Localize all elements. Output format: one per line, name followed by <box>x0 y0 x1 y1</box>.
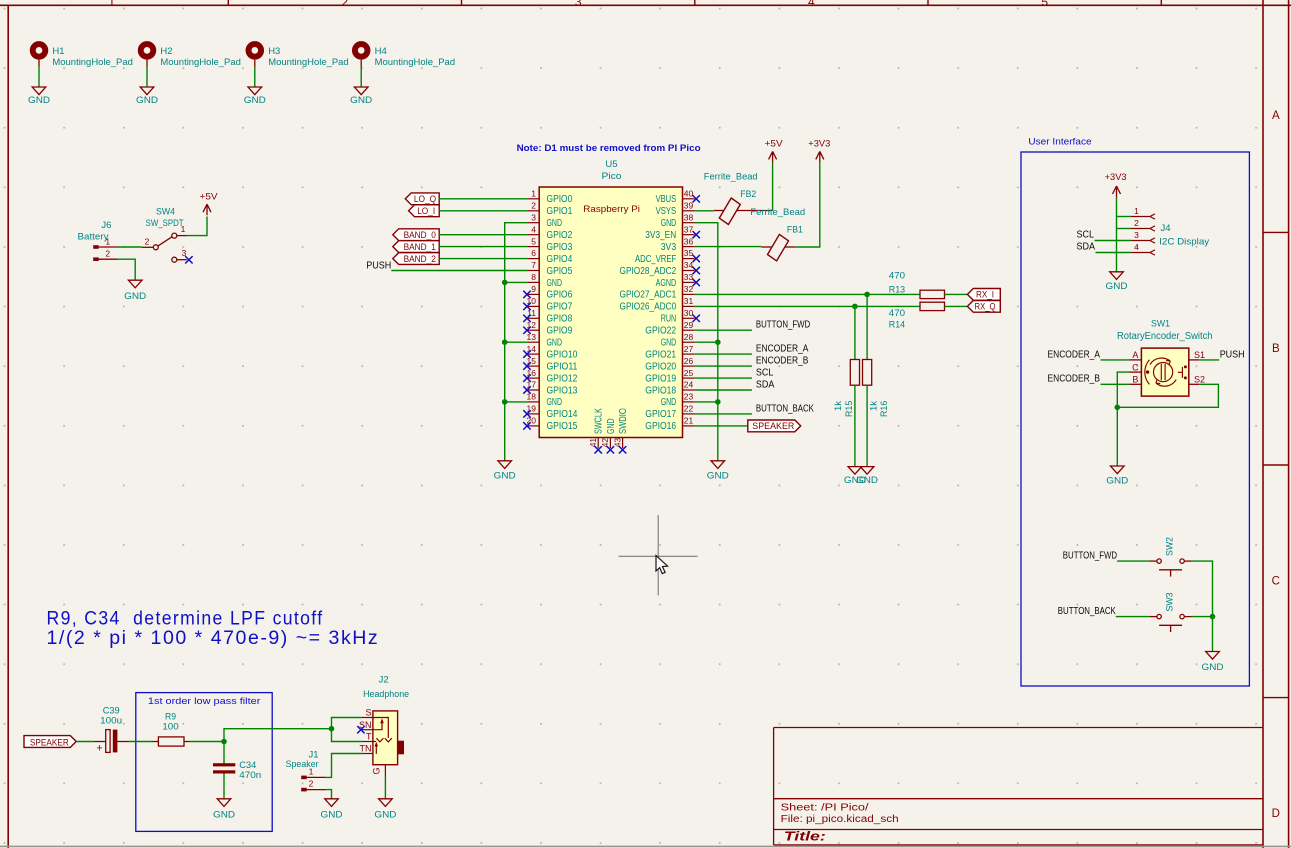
user interface sheet box <box>1021 152 1249 686</box>
wire FB1 to +3V3 <box>795 162 820 247</box>
svg-text:GPIO22: GPIO22 <box>645 326 676 337</box>
svg-text:GPIO8: GPIO8 <box>547 314 573 325</box>
wire PUSH to GPIO5 <box>391 270 528 272</box>
svg-text:LO_Q: LO_Q <box>414 194 436 205</box>
junction <box>715 339 721 345</box>
svg-text:RUN: RUN <box>661 314 677 325</box>
svg-text:+5V: +5V <box>200 192 219 203</box>
no-connect SN <box>357 726 364 733</box>
svg-text:2: 2 <box>145 237 150 247</box>
wire SPEAKER <box>695 425 748 427</box>
mounting hole H2 <box>141 44 154 57</box>
svg-text:470: 470 <box>889 270 905 281</box>
svg-text:42: 42 <box>600 438 610 448</box>
wire J6.2 to GND <box>118 259 136 280</box>
pin 25 GPIO19 <box>683 377 695 379</box>
wire <box>439 210 528 212</box>
pin 23 GND <box>683 401 695 403</box>
svg-text:GPIO9: GPIO9 <box>547 326 573 337</box>
ground <box>860 467 874 475</box>
ground <box>1111 466 1125 474</box>
svg-text:5: 5 <box>531 236 536 246</box>
svg-text:Raspberry Pi: Raspberry Pi <box>583 204 640 215</box>
svg-text:J2: J2 <box>379 675 389 686</box>
wire <box>1117 228 1131 230</box>
no-connect pin 43 <box>619 446 626 453</box>
svg-text:SCL: SCL <box>756 367 774 378</box>
svg-text:BAND_1: BAND_1 <box>404 242 436 253</box>
svg-text:FB1: FB1 <box>787 225 803 236</box>
mounting hole H1 <box>33 44 46 57</box>
svg-text:G: G <box>372 767 382 774</box>
wire SW3 to GND bus <box>1192 616 1213 618</box>
svg-text:39: 39 <box>684 200 694 210</box>
svg-text:1: 1 <box>531 189 536 199</box>
svg-text:GPIO20: GPIO20 <box>645 361 676 372</box>
wire <box>439 234 528 236</box>
svg-text:41: 41 <box>588 438 598 448</box>
svg-text:2: 2 <box>105 249 110 259</box>
svg-text:8: 8 <box>531 272 536 282</box>
svg-text:3V3_EN: 3V3_EN <box>645 230 676 241</box>
hierarchical label BAND_2 <box>393 253 439 265</box>
no-connect pin 20 <box>523 422 530 429</box>
svg-text:R13: R13 <box>889 284 905 295</box>
wire <box>1117 560 1150 562</box>
pin 41 SWCLK <box>597 438 599 449</box>
wire <box>38 67 40 88</box>
svg-text:ADC_VREF: ADC_VREF <box>635 254 676 265</box>
wire BUTTON_BACK <box>695 413 752 415</box>
hierarchical label RX_Q <box>967 301 1000 313</box>
svg-text:SW1: SW1 <box>1151 318 1170 329</box>
svg-text:D: D <box>1272 808 1280 820</box>
svg-text:1k: 1k <box>868 401 879 411</box>
pin 43 SWDIO <box>622 438 624 449</box>
title block <box>774 727 1263 729</box>
svg-text:PUSH: PUSH <box>1220 349 1245 360</box>
svg-text:GPIO4: GPIO4 <box>547 254 573 265</box>
wire J1.1 to TN <box>326 754 362 778</box>
wire <box>944 305 967 307</box>
pin 37 3V3_EN <box>683 234 695 236</box>
no-connect pin 35 <box>693 255 700 262</box>
wire <box>129 741 153 743</box>
svg-text:GND: GND <box>547 278 563 289</box>
svg-text:GPIO2: GPIO2 <box>547 230 573 241</box>
wire SCL <box>695 377 752 379</box>
pin 11 GPIO8 <box>528 317 539 319</box>
svg-text:C: C <box>1272 575 1280 587</box>
no-connect pin 41 <box>595 446 602 453</box>
pin 14 GPIO10 <box>528 353 539 355</box>
wire GND bus left <box>505 223 528 461</box>
no-connect pin 40 <box>693 195 700 202</box>
no-connect pin 17 <box>523 386 530 393</box>
pin 35 ADC_VREF <box>683 258 695 260</box>
svg-text:ENCODER_B: ENCODER_B <box>1048 374 1101 385</box>
svg-text:User Interface: User Interface <box>1028 136 1091 147</box>
wire node down to C34 <box>223 742 225 765</box>
svg-text:H4: H4 <box>375 46 387 57</box>
hierarchical label BAND_0 <box>393 229 439 241</box>
pin 20 GPIO15 <box>528 425 539 427</box>
svg-text:H2: H2 <box>160 46 172 57</box>
hierarchical label BAND_1 <box>393 241 439 253</box>
svg-text:Note: D1 must be removed from: Note: D1 must be removed from PI Pico <box>517 143 701 153</box>
svg-text:RX_Q: RX_Q <box>975 302 996 313</box>
svg-text:GPIO19: GPIO19 <box>645 373 676 384</box>
pin 21 GPIO16 <box>683 425 695 427</box>
graphic box 1st order low pass filter <box>136 693 272 832</box>
svg-text:Battery: Battery <box>78 231 109 242</box>
mounting hole H3 <box>249 44 262 57</box>
svg-text:File: pi_pico.kicad_sch: File: pi_pico.kicad_sch <box>781 814 899 825</box>
svg-text:GND: GND <box>606 419 617 435</box>
svg-text:30: 30 <box>684 308 694 318</box>
no-connect pin 10 <box>523 303 530 310</box>
svg-text:18: 18 <box>527 392 537 402</box>
wire R15 top <box>854 306 856 359</box>
svg-text:S2: S2 <box>1194 375 1205 385</box>
svg-text:GPIO5: GPIO5 <box>547 266 573 277</box>
no-connect pin 34 <box>693 267 700 274</box>
svg-text:23: 23 <box>684 392 694 402</box>
wire <box>695 341 718 343</box>
wire <box>146 67 148 88</box>
svg-text:470n: 470n <box>239 770 261 781</box>
ground <box>248 87 262 95</box>
svg-text:GPIO0: GPIO0 <box>547 194 573 205</box>
svg-text:GND: GND <box>374 810 396 821</box>
svg-text:Ferrite_Bead: Ferrite_Bead <box>704 171 758 182</box>
ground <box>1110 272 1124 280</box>
svg-text:AGND: AGND <box>656 278 677 289</box>
svg-text:VSYS: VSYS <box>656 206 677 217</box>
wire R9 to node <box>190 741 225 743</box>
svg-text:Sheet: /PI Pico/: Sheet: /PI Pico/ <box>781 802 869 813</box>
svg-text:U5: U5 <box>605 159 617 170</box>
hierarchical label LO_I <box>409 205 440 217</box>
pin 39 VSYS <box>683 210 695 212</box>
svg-text:H1: H1 <box>52 46 64 57</box>
ground <box>217 799 231 807</box>
svg-text:R14: R14 <box>889 320 905 331</box>
ferrite bead FB1 <box>768 234 789 261</box>
no-connect pin 42 <box>607 446 614 453</box>
power +5V <box>769 151 777 162</box>
wire ENCODER_B <box>695 365 752 367</box>
svg-text:GND: GND <box>661 338 677 349</box>
IC U5 Pico (Raspberry Pi) body <box>539 187 682 438</box>
svg-text:GND: GND <box>28 95 50 106</box>
svg-text:1k: 1k <box>833 401 844 411</box>
svg-text:2: 2 <box>342 0 349 9</box>
wire VSYS to FB2 <box>695 210 714 212</box>
pin 30 RUN <box>683 317 695 319</box>
pin 7 GPIO5 <box>528 270 539 272</box>
wire SW2 to GND bus <box>1192 561 1213 651</box>
svg-text:470: 470 <box>889 308 905 319</box>
wire S1 to PUSH <box>1199 359 1219 361</box>
svg-text:RotaryEncoder_Switch: RotaryEncoder_Switch <box>1117 331 1213 342</box>
svg-text:R15: R15 <box>844 401 855 417</box>
svg-text:Headphone: Headphone <box>363 689 409 700</box>
svg-text:GND: GND <box>244 95 266 106</box>
wire BUTTON_FWD <box>695 329 752 331</box>
junction <box>1115 405 1121 411</box>
svg-text:GPIO27_ADC1: GPIO27_ADC1 <box>620 290 677 301</box>
svg-text:H3: H3 <box>268 46 280 57</box>
pin 17 GPIO13 <box>528 389 539 391</box>
switch SW2 <box>1157 559 1161 563</box>
svg-text:2: 2 <box>1134 218 1139 228</box>
svg-text:24: 24 <box>684 380 694 390</box>
svg-text:3: 3 <box>531 212 536 222</box>
capacitor C39 100u <box>93 741 106 743</box>
svg-text:A: A <box>1132 350 1138 360</box>
svg-text:VBUS: VBUS <box>656 194 677 205</box>
junction <box>502 280 508 286</box>
svg-text:J6: J6 <box>101 220 111 231</box>
svg-text:GPIO12: GPIO12 <box>547 373 578 384</box>
wire SDA <box>695 389 752 391</box>
no-connect pin 33 <box>693 279 700 286</box>
svg-text:GPIO1: GPIO1 <box>547 206 573 217</box>
pin 22 GPIO17 <box>683 413 695 415</box>
svg-text:GND: GND <box>661 397 677 408</box>
svg-text:22: 22 <box>684 404 694 414</box>
power +5V <box>203 204 211 215</box>
svg-text:4: 4 <box>808 0 815 9</box>
svg-text:21: 21 <box>684 416 694 426</box>
junction <box>1210 614 1216 620</box>
wire to S <box>332 718 362 729</box>
svg-text:36: 36 <box>684 236 694 246</box>
svg-text:1: 1 <box>108 0 115 9</box>
wire +3V3 to J4.1 and GND bus <box>1116 197 1118 272</box>
pin 9 GPIO6 <box>528 293 539 295</box>
svg-text:3: 3 <box>575 0 582 9</box>
resistor R15 1k <box>850 360 859 386</box>
svg-text:MountingHole_Pad: MountingHole_Pad <box>268 57 349 68</box>
svg-text:GND: GND <box>1106 281 1128 292</box>
svg-text:GND: GND <box>1202 662 1224 673</box>
svg-text:33: 33 <box>684 272 694 282</box>
svg-text:S1: S1 <box>1194 350 1205 360</box>
svg-text:GND: GND <box>707 471 729 482</box>
junction <box>502 339 508 345</box>
svg-text:4: 4 <box>1134 242 1139 252</box>
svg-text:+: + <box>96 743 102 755</box>
pin 2 GPIO1 <box>528 210 539 212</box>
wire ENCODER_B <box>1101 383 1130 385</box>
ground <box>1206 652 1220 660</box>
wire GPIO27_ADC1 to R13 <box>695 293 920 295</box>
junction node RX_I tap <box>864 292 870 298</box>
wire <box>1116 616 1150 618</box>
svg-text:26: 26 <box>684 356 694 366</box>
svg-text:25: 25 <box>684 368 694 378</box>
svg-text:2: 2 <box>309 779 314 789</box>
svg-text:1: 1 <box>1134 206 1139 216</box>
svg-text:SCL: SCL <box>1077 229 1095 240</box>
no-connect pin 19 <box>523 410 530 417</box>
svg-text:31: 31 <box>684 296 694 306</box>
wire SDA <box>1096 252 1131 254</box>
svg-text:Ferrite_Bead: Ferrite_Bead <box>750 207 805 218</box>
ground <box>498 461 512 469</box>
svg-text:3V3: 3V3 <box>661 242 677 253</box>
wire <box>439 246 528 248</box>
ground <box>325 799 339 807</box>
svg-text:GPIO14: GPIO14 <box>547 409 578 420</box>
wire C to GND <box>1117 372 1129 466</box>
ground <box>32 87 46 95</box>
pin 1 GPIO0 <box>528 198 539 200</box>
svg-text:34: 34 <box>684 260 694 270</box>
pin 13 GND <box>528 341 539 343</box>
resistor R16 1k <box>863 360 872 386</box>
svg-text:7: 7 <box>531 260 536 270</box>
no-connect pin 11 <box>523 315 530 322</box>
ground <box>711 461 725 469</box>
svg-text:MountingHole_Pad: MountingHole_Pad <box>375 57 456 68</box>
svg-text:GND: GND <box>547 338 563 349</box>
switch SW3 <box>1157 614 1161 618</box>
svg-text:GND: GND <box>350 95 372 106</box>
svg-text:28: 28 <box>684 332 694 342</box>
svg-text:27: 27 <box>684 344 694 354</box>
svg-text:LO_I: LO_I <box>417 206 435 217</box>
wire FB2 to +5V <box>772 162 774 210</box>
svg-text:SPEAKER: SPEAKER <box>752 421 794 432</box>
pin 31 GPIO26_ADC0 <box>683 305 695 307</box>
svg-text:+3V3: +3V3 <box>1105 172 1127 183</box>
svg-text:BUTTON_BACK: BUTTON_BACK <box>756 403 814 414</box>
pin 5 GPIO3 <box>528 246 539 248</box>
wire R16 top <box>866 294 868 359</box>
pin 26 GPIO20 <box>683 365 695 367</box>
svg-text:RX_I: RX_I <box>976 290 994 301</box>
svg-text:I2C Display: I2C Display <box>1159 236 1209 247</box>
wire <box>1117 216 1131 218</box>
pin 8 GND <box>528 281 539 283</box>
svg-text:GND: GND <box>321 810 343 821</box>
svg-text:GPIO26_ADC0: GPIO26_ADC0 <box>620 302 677 313</box>
svg-text:40: 40 <box>684 189 694 199</box>
wire R16 bottom <box>866 385 868 466</box>
pin 36 3V3 <box>683 246 695 248</box>
pin 34 GPIO28_ADC2 <box>683 270 695 272</box>
svg-text:100u: 100u <box>100 716 122 727</box>
svg-text:35: 35 <box>684 248 694 258</box>
wire <box>695 401 718 403</box>
svg-text:9: 9 <box>531 284 536 294</box>
pin 24 GPIO18 <box>683 389 695 391</box>
wire <box>505 281 528 283</box>
wire SW4.1 to +5V <box>187 217 207 236</box>
connector J4 I2C Display <box>1131 216 1150 218</box>
svg-text:32: 32 <box>684 284 694 294</box>
svg-text:2: 2 <box>531 200 536 210</box>
svg-text:MountingHole_Pad: MountingHole_Pad <box>160 57 241 68</box>
no-connect pin 37 <box>693 231 700 238</box>
svg-text:GPIO7: GPIO7 <box>547 302 573 313</box>
svg-text:B: B <box>1272 343 1280 355</box>
junction node RX_Q tap <box>852 304 858 310</box>
svg-text:SDA: SDA <box>1077 242 1096 253</box>
svg-text:R16: R16 <box>879 401 890 417</box>
svg-text:GPIO10: GPIO10 <box>547 349 578 360</box>
svg-text:GPIO21: GPIO21 <box>645 349 676 360</box>
svg-text:Speaker: Speaker <box>286 759 319 770</box>
svg-text:ENCODER_B: ENCODER_B <box>756 356 809 367</box>
svg-text:FB2: FB2 <box>740 189 756 200</box>
svg-text:SW_SPDT: SW_SPDT <box>146 218 184 229</box>
svg-text:BUTTON_FWD: BUTTON_FWD <box>1063 551 1117 562</box>
svg-text:38: 38 <box>684 212 694 222</box>
wire SCL <box>1095 240 1131 242</box>
svg-text:3: 3 <box>1134 230 1139 240</box>
svg-text:100: 100 <box>162 721 178 732</box>
wire <box>505 341 528 343</box>
svg-text:GPIO15: GPIO15 <box>547 421 578 432</box>
svg-text:B: B <box>1132 375 1138 385</box>
pin 29 GPIO22 <box>683 329 695 331</box>
ground <box>128 280 142 288</box>
no-connect pin 9 <box>523 291 530 298</box>
junction <box>715 399 721 405</box>
wire to T <box>332 729 362 742</box>
ground <box>140 87 154 95</box>
junction <box>329 726 335 732</box>
svg-text:A: A <box>1272 110 1280 122</box>
wire 3V3 to FB1 <box>695 246 762 248</box>
no-connect pin 30 <box>693 315 700 322</box>
svg-text:MountingHole_Pad: MountingHole_Pad <box>52 57 132 68</box>
pin 6 GPIO4 <box>528 258 539 260</box>
wire <box>439 198 528 200</box>
svg-text:GND: GND <box>661 218 677 229</box>
svg-text:SDA: SDA <box>756 379 775 390</box>
svg-text:GPIO17: GPIO17 <box>645 409 676 420</box>
svg-text:GPIO11: GPIO11 <box>547 361 578 372</box>
svg-text:S: S <box>365 708 371 718</box>
svg-text:SN: SN <box>359 720 372 730</box>
svg-text:GND: GND <box>124 291 146 302</box>
wire GPIO26_ADC0 to R14 <box>695 305 920 307</box>
svg-text:SWCLK: SWCLK <box>594 408 605 434</box>
svg-text:GND: GND <box>494 471 516 482</box>
wire G to GND <box>384 777 386 799</box>
pin 40 VBUS <box>683 198 695 200</box>
svg-text:BUTTON_BACK: BUTTON_BACK <box>1058 606 1116 617</box>
svg-text:GPIO3: GPIO3 <box>547 242 573 253</box>
svg-text:1st order low pass filter: 1st order low pass filter <box>148 696 261 707</box>
ferrite bead FB2 <box>719 198 740 225</box>
svg-text:5: 5 <box>1041 0 1048 9</box>
svg-text:1: 1 <box>181 224 186 234</box>
wire <box>76 741 93 743</box>
pin 42 GND <box>609 438 611 449</box>
junction <box>502 399 508 405</box>
wire C34 to GND <box>223 774 225 799</box>
wire J6.1 to SW4 <box>118 246 142 248</box>
ground <box>848 467 862 475</box>
cursor crosshair <box>619 555 698 557</box>
capacitor C34 470n <box>213 763 235 766</box>
